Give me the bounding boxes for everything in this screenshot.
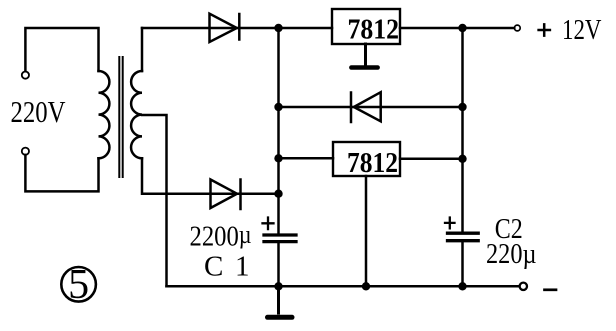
wire secondary bottom feed to D2: [142, 158, 279, 193]
transformer core: [119, 57, 122, 177]
terminal AC top: [22, 72, 29, 79]
minus sign: [545, 288, 557, 291]
transformer T1 secondary winding: [131, 71, 142, 158]
C2 plus sign: [445, 218, 455, 229]
wire secondary top feed: [141, 28, 144, 71]
terminal minus: [520, 283, 527, 290]
diode D1: [210, 14, 240, 42]
diode D3: [351, 92, 381, 122]
node reg1 out: [458, 24, 466, 32]
wire reg2 input: [279, 157, 334, 160]
node C2 bottom: [458, 282, 466, 290]
terminal AC bottom: [22, 148, 29, 155]
node D3 right: [458, 103, 466, 111]
wire top rail: [142, 27, 332, 30]
wire reg1 output rail: [400, 27, 514, 30]
wire left node column: [277, 28, 280, 233]
wire primary bottom loop: [25, 155, 98, 192]
wire right node column: [461, 28, 464, 232]
diode D2: [211, 180, 241, 210]
svg-text:7812: 7812: [347, 147, 398, 179]
svg-text:220µ: 220µ: [486, 238, 537, 270]
svg-text:7812: 7812: [348, 14, 400, 46]
node reg2 out: [458, 155, 466, 163]
node D2 out: [274, 190, 282, 198]
regulator U1 box: [332, 9, 400, 44]
terminal +12V: [514, 25, 520, 31]
wire reg2 output: [400, 158, 463, 161]
wire U2 ground stem: [365, 176, 368, 286]
node dots: [274, 24, 466, 291]
svg-text:2200µ: 2200µ: [190, 220, 252, 253]
svg-text:5: 5: [68, 262, 89, 308]
node reg2 in: [274, 154, 282, 162]
figure number circle 5: [61, 267, 96, 302]
capacitor C1 plates: [264, 233, 296, 236]
transformer T1 primary winding: [99, 71, 110, 158]
wire center tap: [142, 115, 167, 286]
node C1 bottom: [274, 282, 282, 290]
wire D3 row: [279, 106, 463, 109]
wire primary top loop: [25, 28, 98, 71]
ground below U1: [364, 44, 367, 65]
node D1-out: [274, 24, 282, 32]
ground below C1: [277, 286, 280, 313]
svg-text:12V: 12V: [562, 14, 602, 46]
C1 plus sign: [263, 218, 274, 230]
wire bottom rail: [167, 285, 520, 288]
plus sign of +12V: [539, 24, 550, 35]
svg-text:220V: 220V: [11, 94, 66, 129]
capacitor C2 plates: [448, 232, 479, 235]
node U2 gnd: [362, 282, 370, 290]
regulator U2 box: [333, 142, 400, 176]
node D3 left: [274, 103, 282, 111]
